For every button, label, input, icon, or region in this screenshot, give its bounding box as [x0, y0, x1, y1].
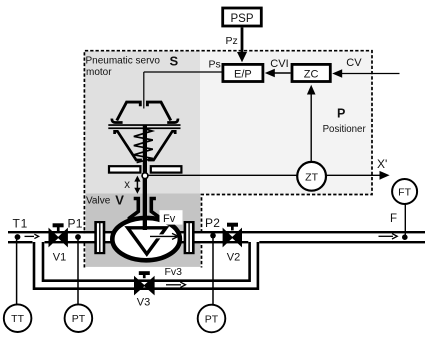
svg-text:PT: PT: [205, 314, 219, 326]
line ZT to X' arrow: [326, 174, 381, 176]
actuator top case right: [147, 102, 170, 120]
FT connection line: [404, 205, 406, 238]
actuator right foot: [167, 119, 178, 123]
TT circle: [4, 304, 32, 332]
positioner region P fill: [200, 51, 372, 195]
svg-text:V1: V1: [53, 252, 66, 264]
svg-text:TT: TT: [11, 313, 24, 325]
svg-text:Pz: Pz: [226, 35, 238, 47]
PSP box: [223, 8, 262, 26]
valve region V fill: [86, 194, 201, 267]
svg-text:P: P: [337, 107, 345, 121]
PT circle 2: [198, 305, 226, 333]
actuator lower case left: [115, 131, 142, 160]
svg-text:Valve: Valve: [86, 195, 111, 206]
Ps line to actuator: [144, 71, 222, 73]
valve V2 handle: [227, 223, 238, 227]
left flange: [94, 221, 105, 254]
svg-text:Positioner: Positioner: [323, 124, 367, 135]
svg-text:V: V: [115, 193, 124, 208]
actuator spring: [134, 129, 153, 163]
valve V3 body: [135, 277, 155, 294]
valve flow arrow: [150, 234, 177, 238]
diaphragm line 1: [108, 124, 180, 126]
F node dot: [402, 234, 408, 240]
pneumatic servo motor region S fill: [85, 51, 201, 194]
svg-text:PT: PT: [72, 313, 86, 325]
flow arrow after T1: [25, 235, 35, 237]
svg-text:Ps: Ps: [209, 59, 221, 71]
valve plug triangle: [128, 228, 166, 254]
FT transmitter circle: [392, 179, 417, 204]
CV line into ZC: [341, 73, 400, 75]
T1 node dot: [15, 234, 21, 240]
yoke bar left: [109, 166, 140, 172]
svg-text:F: F: [390, 213, 397, 225]
P2 node dot: [210, 233, 216, 239]
PSP to E/P arrow: [241, 28, 244, 55]
bypass pipe outer line: [34, 242, 258, 289]
flow arrow before F: [379, 235, 394, 237]
actuator stem: [143, 125, 147, 173]
svg-text:motor: motor: [86, 67, 112, 78]
main pipe bottom line segment 3: [259, 241, 425, 243]
P1 instrument line: [77, 240, 79, 305]
actuator supply line: [143, 72, 145, 109]
x travel double arrow: [136, 180, 138, 191]
P1 node dot: [75, 234, 81, 240]
PT circle 1: [65, 304, 93, 332]
svg-text:Pneumatic servo: Pneumatic servo: [86, 56, 161, 67]
svg-text:Fv: Fv: [163, 213, 176, 225]
bypass pipe inner line: [43, 242, 250, 281]
svg-text:T1: T1: [13, 217, 29, 231]
P2 instrument line: [212, 238, 214, 305]
svg-text:V2: V2: [227, 252, 240, 264]
E/P box: [223, 64, 263, 81]
actuator top case left: [117, 102, 141, 120]
stem position node: [142, 173, 148, 179]
svg-text:E/P: E/P: [234, 69, 252, 81]
svg-text:CV: CV: [346, 57, 362, 69]
bonnet right post: [151, 199, 160, 222]
bonnet left post: [129, 199, 138, 222]
valve V2 body: [223, 229, 241, 246]
main pipe bottom line segment 1: [8, 241, 33, 243]
Fv label box: [160, 210, 183, 224]
flow arrow after V3: [166, 284, 181, 286]
actuator left foot: [112, 119, 123, 123]
main pipe bottom line segment 2: [45, 241, 249, 243]
ZT transmitter circle: [297, 162, 326, 191]
ZC to E/P arrow: [274, 72, 291, 74]
right flange: [184, 221, 195, 254]
T1 instrument line: [16, 240, 18, 305]
line ZT up to ZC: [310, 93, 312, 161]
yoke bar right: [151, 166, 182, 172]
svg-text:Fv3: Fv3: [165, 266, 183, 278]
valve stem lower: [143, 179, 147, 230]
svg-text:V3: V3: [137, 297, 150, 309]
valve V3 handle: [139, 271, 150, 275]
ZC box: [292, 64, 330, 81]
svg-text:P2: P2: [205, 216, 220, 230]
svg-text:PSP: PSP: [230, 13, 253, 25]
svg-text:S: S: [170, 53, 179, 68]
svg-text:FT: FT: [398, 187, 411, 199]
svg-text:x: x: [124, 179, 130, 191]
X measurement line to ZT: [148, 174, 297, 176]
svg-text:ZC: ZC: [304, 69, 319, 81]
svg-text:ZT: ZT: [305, 171, 318, 183]
valve V1 handle: [53, 223, 64, 227]
dashed boundary outline (L-shape around S, P and V regions): [84, 51, 372, 268]
svg-text:X': X': [377, 157, 387, 171]
main pipe top line: [8, 231, 425, 233]
valve body ellipse: [112, 218, 180, 260]
actuator lower case right: [148, 131, 175, 160]
svg-text:P1: P1: [68, 217, 83, 231]
main pipe interior: [8, 233, 425, 241]
svg-text:CVI: CVI: [270, 58, 288, 70]
diaphragm line 2: [108, 127, 180, 129]
valve V1 body: [49, 229, 67, 246]
